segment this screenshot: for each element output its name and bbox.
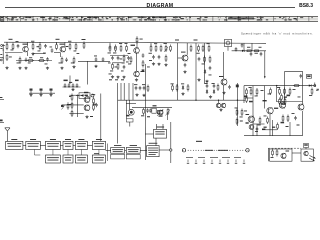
block box C1 — [46, 155, 61, 163]
wire af line — [118, 99, 245, 101]
capacitor C4 — [46, 57, 49, 61]
resistor R72 — [93, 104, 95, 112]
terminal E6 — [170, 122, 172, 163]
transistor T10 — [221, 103, 225, 108]
switch S1c — [50, 89, 53, 94]
label R34 value — [202, 63, 205, 66]
label chain H — [259, 46, 262, 49]
junction dots af — [195, 100, 238, 101]
ground G3 — [24, 67, 27, 70]
label K l9 — [297, 125, 300, 126]
wire k-bd3 — [272, 120, 274, 136]
wire block link 4 — [73, 144, 75, 146]
speaker arrows — [309, 156, 316, 162]
ground G21 — [39, 93, 42, 96]
label R55 value — [277, 86, 280, 89]
label T14 — [274, 108, 278, 109]
wire supply bus — [4, 42, 266, 43]
wire k-drop 302 — [302, 86, 304, 105]
label R61 value — [258, 124, 261, 127]
wire conn drop — [100, 94, 102, 142]
ground G25 — [142, 94, 145, 97]
resistor R13 — [73, 57, 75, 65]
resistor R17 — [120, 45, 122, 53]
label T2 r1 — [66, 46, 69, 47]
dial cord dotted line — [183, 149, 249, 152]
ground G22 — [49, 93, 52, 96]
wire T9 drop — [218, 100, 220, 103]
capacitor C27 — [135, 86, 138, 90]
block box B1 — [6, 139, 23, 150]
resistor R23 — [142, 60, 144, 68]
capacitor C3 — [25, 58, 28, 62]
diode D4 — [206, 89, 208, 94]
resistor R70 — [236, 118, 238, 126]
wire k-link3 — [253, 123, 265, 125]
label F drop — [147, 66, 150, 69]
capacitor C34 — [300, 74, 303, 78]
capacitor C2 — [44, 44, 47, 48]
terminal E2 — [0, 97, 4, 100]
capacitor C16 — [198, 57, 201, 61]
wire block link 5 — [87, 144, 92, 146]
label row2 mid — [94, 152, 99, 155]
resistor R1 — [6, 43, 8, 51]
wire link M1a-M1b — [125, 149, 127, 151]
capacitor C33 — [149, 108, 152, 112]
terminal E3 — [0, 120, 4, 123]
resistor R49 — [143, 108, 145, 116]
wire stage1 base — [5, 52, 23, 54]
resistor R31 — [198, 45, 200, 53]
antenna coil L1 — [0, 44, 4, 64]
resistor R48 — [241, 109, 243, 117]
diode D5 — [213, 89, 215, 94]
resistor R68 — [270, 88, 272, 96]
label T5 — [181, 52, 186, 53]
dial cord lower run — [186, 156, 241, 158]
wire bus drop F — [150, 43, 152, 46]
resistor R39 — [71, 94, 73, 102]
wire drop 129 — [128, 83, 130, 100]
switch S1b — [40, 89, 43, 94]
label K bottom — [262, 129, 265, 130]
resistor R57 — [289, 88, 291, 96]
wire block vlink 4 — [98, 150, 100, 156]
block box B2 — [26, 139, 41, 150]
label R73 value — [284, 97, 287, 98]
wire long vertical 145 — [144, 64, 146, 160]
label K l6 — [255, 130, 258, 133]
resistor R69 — [277, 123, 279, 131]
wire M3 up2 — [162, 124, 164, 129]
label mid e — [121, 70, 124, 73]
ground G20 — [29, 93, 32, 96]
capacitor C37 — [127, 56, 130, 60]
wire R1 drop — [6, 42, 8, 44]
dial pulley right — [246, 149, 249, 152]
resistor R62 — [267, 117, 269, 125]
label T12 b — [126, 115, 129, 117]
label R24 value — [128, 63, 131, 66]
resistor R71 — [67, 102, 69, 110]
junction dot — [276, 85, 277, 86]
block box B4 — [63, 139, 73, 150]
wire k-bottom — [244, 135, 303, 137]
label R12 value — [59, 62, 62, 65]
resistor R14 — [83, 42, 85, 50]
capacitor C32 — [146, 108, 149, 112]
resistor R2 — [12, 43, 14, 51]
capacitor C8 — [102, 57, 105, 61]
wire T3-T4 — [136, 53, 138, 71]
label mid g1 — [109, 79, 112, 80]
capacitor C19 — [250, 52, 253, 56]
label R52 value — [249, 86, 252, 89]
earphone box V1 — [270, 149, 292, 161]
resistor R21 — [117, 63, 119, 71]
wire block vlink 2 — [67, 150, 69, 156]
label cluster F — [149, 59, 152, 62]
capacitor C15 — [184, 63, 187, 67]
capacitor C30 — [206, 84, 209, 88]
ground G5 — [60, 67, 63, 70]
IF transformer winding — [226, 41, 230, 45]
wire block link 1 — [23, 144, 26, 146]
block box M1b lower — [126, 154, 140, 159]
wire stage2 emitter — [60, 52, 62, 57]
label mid g2 — [115, 79, 118, 80]
capacitor C24 — [72, 83, 75, 87]
wire block vlink 1 — [52, 150, 54, 156]
ground G11 — [141, 69, 144, 72]
capacitor C25 — [76, 83, 79, 87]
resistor R43 — [147, 85, 149, 93]
wire driver link — [129, 122, 131, 127]
resistor R42 — [93, 97, 95, 105]
label R31 value — [197, 52, 200, 55]
wire block link 3 — [60, 144, 63, 146]
block box M1a lower — [111, 154, 125, 159]
block box M3 — [154, 127, 167, 139]
resistor R52 — [250, 88, 252, 96]
label R36 value — [247, 46, 250, 49]
block box C4 — [92, 155, 105, 163]
ground G17 — [197, 78, 200, 81]
label K l1 — [261, 89, 264, 92]
resistor R7 — [27, 60, 34, 62]
ground G16 — [183, 70, 186, 73]
resistor R6 — [19, 57, 21, 65]
ground G24 — [135, 93, 138, 96]
label R17 value — [119, 42, 122, 45]
wire k-drop 277 — [276, 86, 278, 102]
capacitor C26 — [95, 103, 98, 107]
transistor T15 — [279, 102, 285, 109]
ground G14 — [157, 63, 160, 66]
resistor R37 — [253, 50, 260, 52]
resistor R44 — [172, 84, 174, 92]
label R49 value — [141, 115, 144, 116]
resistor R4 — [39, 43, 41, 51]
dial drum — [205, 149, 228, 151]
label T8 — [93, 104, 96, 105]
wire osc frame top — [284, 71, 303, 73]
resistor R67 — [304, 144, 309, 150]
label T2 r2 — [77, 52, 80, 55]
label cluster K1 — [249, 101, 253, 103]
capacitor C9 — [111, 56, 114, 60]
label k bot2 — [272, 127, 275, 128]
wire k-bd1 — [256, 124, 258, 136]
wire drv drop2 — [129, 100, 131, 109]
capacitor C31 — [213, 84, 216, 88]
diode D3 — [182, 85, 184, 90]
label R40 value — [69, 103, 72, 106]
svg-text:Spændinger målt fra 'x' mod mi: Spændinger målt fra 'x' mod minuslinien. — [241, 31, 313, 35]
resistor R50 — [293, 85, 300, 87]
resistor R45 — [176, 84, 178, 92]
transistor T3 — [134, 48, 140, 54]
label k bot1 — [264, 127, 267, 128]
label R33 value — [207, 42, 210, 45]
label R44 value — [171, 82, 174, 85]
resistor R38 — [217, 84, 219, 92]
label R70 value — [240, 121, 243, 122]
wire M3 up1 — [156, 124, 158, 129]
label R9 value — [56, 39, 60, 40]
resistor R53 — [256, 88, 258, 96]
IF transformer box — [225, 39, 232, 46]
wire mid link1 — [110, 55, 128, 57]
label R56 value — [287, 95, 291, 97]
label tone1 — [134, 83, 137, 86]
wire k-link2 — [244, 97, 253, 99]
wire preamp b1 — [69, 94, 83, 96]
wire det line — [78, 60, 110, 62]
resistor R34 — [204, 56, 206, 64]
label Q2 — [212, 82, 215, 85]
transistor T6 — [221, 79, 227, 85]
parts legend strip — [0, 16, 318, 21]
wire R9 drop — [56, 42, 58, 44]
label R42 value — [92, 93, 95, 96]
wire mid link2 — [113, 62, 125, 64]
capacitor C11 — [123, 65, 126, 69]
label R14 value — [82, 39, 86, 40]
wire drv drop1 — [126, 100, 128, 119]
capacitor C14 — [158, 55, 161, 59]
capacitor C23 — [68, 83, 71, 87]
wire drop 237 — [236, 83, 239, 126]
label C1 value — [16, 40, 19, 43]
resistor R10 — [69, 43, 71, 51]
wire link M1b-M2 — [140, 149, 147, 151]
wire drop 133 — [132, 83, 134, 100]
transistor T17 — [249, 124, 254, 129]
resistor R5 — [6, 54, 8, 62]
transistor T9 — [216, 103, 220, 108]
wire T5 collector — [186, 43, 188, 55]
connector J1 — [76, 93, 94, 99]
resistor R33 — [208, 45, 210, 53]
transistor T15b — [298, 104, 304, 110]
label R53 value — [255, 95, 258, 98]
transistor T11 — [158, 110, 163, 115]
wire k-bd4 — [289, 122, 291, 136]
title rule line — [5, 6, 295, 8]
label section G — [209, 74, 212, 77]
label R15 value — [108, 52, 111, 55]
label dial — [196, 141, 202, 142]
resistor R8 — [38, 60, 45, 62]
wire mini 103 — [126, 102, 136, 104]
transistor T18 — [281, 153, 286, 158]
block box B3 — [46, 139, 61, 150]
label R4 value — [38, 50, 41, 53]
label T18 — [286, 151, 290, 152]
wire br left lead — [267, 148, 269, 161]
label R7 value — [29, 56, 32, 59]
resistor R18 — [126, 45, 128, 53]
resistor R65 — [271, 149, 274, 158]
label R13 value — [71, 62, 74, 65]
resistor R36 — [246, 50, 253, 52]
wire af feed — [132, 107, 172, 109]
resistor R66 — [276, 149, 278, 157]
label s1 a — [37, 46, 40, 47]
wire long drop 117 — [117, 83, 119, 144]
capacitor C6 — [65, 58, 68, 62]
resistor R32 — [202, 45, 204, 53]
wire k-drop 244 — [243, 86, 245, 103]
potentiometer P1 — [164, 45, 168, 53]
label mid d — [108, 62, 111, 65]
label R37 value — [255, 52, 258, 55]
label S extra — [147, 116, 150, 117]
wire sw drop — [87, 61, 89, 84]
resistor R46 — [187, 84, 189, 92]
resistor R47 — [236, 109, 238, 117]
ground G28 — [219, 108, 222, 111]
wire stage1 stub1 — [32, 41, 34, 44]
label mid x — [128, 52, 131, 55]
label K l5 — [292, 112, 295, 115]
ground G12 — [135, 78, 138, 81]
wire bus drop mid — [109, 43, 111, 47]
terminal E1 — [0, 58, 3, 61]
wire preamp rail — [76, 95, 78, 118]
label chain M2 — [69, 82, 72, 83]
wire osc frame left — [283, 72, 285, 87]
capacitor C1 — [17, 44, 20, 48]
label R51 value — [244, 96, 247, 98]
terminal E4 — [314, 83, 316, 87]
resistor R58 — [279, 98, 281, 106]
resistor R19 — [123, 55, 125, 63]
resistor R26 — [155, 45, 157, 53]
wire chain drop — [69, 76, 71, 85]
label R2 value — [11, 49, 14, 52]
wire T6 down — [223, 85, 225, 100]
capacitor C17 — [209, 66, 212, 70]
label C11 value — [110, 70, 113, 73]
label drop177 — [175, 40, 179, 41]
label T2 — [60, 44, 65, 45]
transistor T19 — [304, 151, 308, 156]
label Q1 — [205, 82, 208, 85]
wire M3 left — [145, 133, 153, 135]
label R16 value — [113, 52, 116, 55]
svg-text:DIAGRAM: DIAGRAM — [147, 3, 174, 9]
wire k-bd2 — [269, 114, 271, 136]
resistor R30 — [190, 45, 192, 53]
label R60 value — [309, 94, 312, 97]
wire block vlink 3 — [80, 150, 82, 156]
label s1 b — [43, 52, 46, 55]
label C3 value — [28, 62, 31, 65]
wire supply rail right — [244, 85, 316, 87]
resistor R63 — [282, 115, 284, 123]
capacitor C21 — [228, 85, 231, 89]
label R48 value — [240, 116, 243, 119]
connector J2 — [152, 108, 156, 113]
capacitor C28 — [139, 86, 142, 90]
label R1 value — [9, 39, 13, 40]
wire tie1 — [243, 43, 245, 51]
ground G4 — [46, 67, 49, 70]
capacitor C38 — [241, 43, 244, 47]
resistor R22 — [136, 36, 138, 44]
resistor R9 — [56, 43, 58, 51]
label T11 — [153, 105, 157, 106]
transistor T8 — [84, 105, 90, 111]
antenna — [5, 128, 10, 142]
wire v1-v2 — [292, 152, 301, 154]
label cluster mid — [109, 73, 112, 76]
label T16 b — [244, 110, 247, 113]
switch S1a — [30, 89, 33, 94]
label R39 value — [69, 95, 72, 98]
label chain M1 — [64, 80, 68, 82]
ground G13 — [152, 62, 155, 65]
label K l2 — [293, 88, 296, 91]
block box C3 — [75, 155, 87, 163]
label s1 c — [50, 46, 53, 49]
wire tie2 — [251, 43, 253, 51]
ground G29 — [71, 88, 74, 91]
ground G26 — [181, 92, 184, 95]
capacitor C10 — [117, 56, 120, 60]
block box C2 — [63, 155, 73, 163]
wire T1 collector — [27, 42, 29, 46]
wire drop 121 — [120, 83, 122, 100]
wire osc frame right — [302, 72, 304, 86]
wire T6 base drop — [223, 52, 225, 79]
label T4 — [141, 71, 145, 72]
label T3 — [131, 45, 136, 46]
label T7 — [84, 92, 88, 93]
capacitor C12 — [142, 53, 145, 57]
label R3 value — [31, 40, 34, 43]
resistor R35 — [209, 56, 211, 64]
resistor R3 — [32, 43, 34, 51]
diode D1 — [204, 69, 206, 74]
resistor R64 — [287, 115, 289, 123]
dial pulley left — [182, 149, 185, 152]
label R10 value — [68, 40, 71, 43]
resistor R25 — [150, 45, 152, 53]
